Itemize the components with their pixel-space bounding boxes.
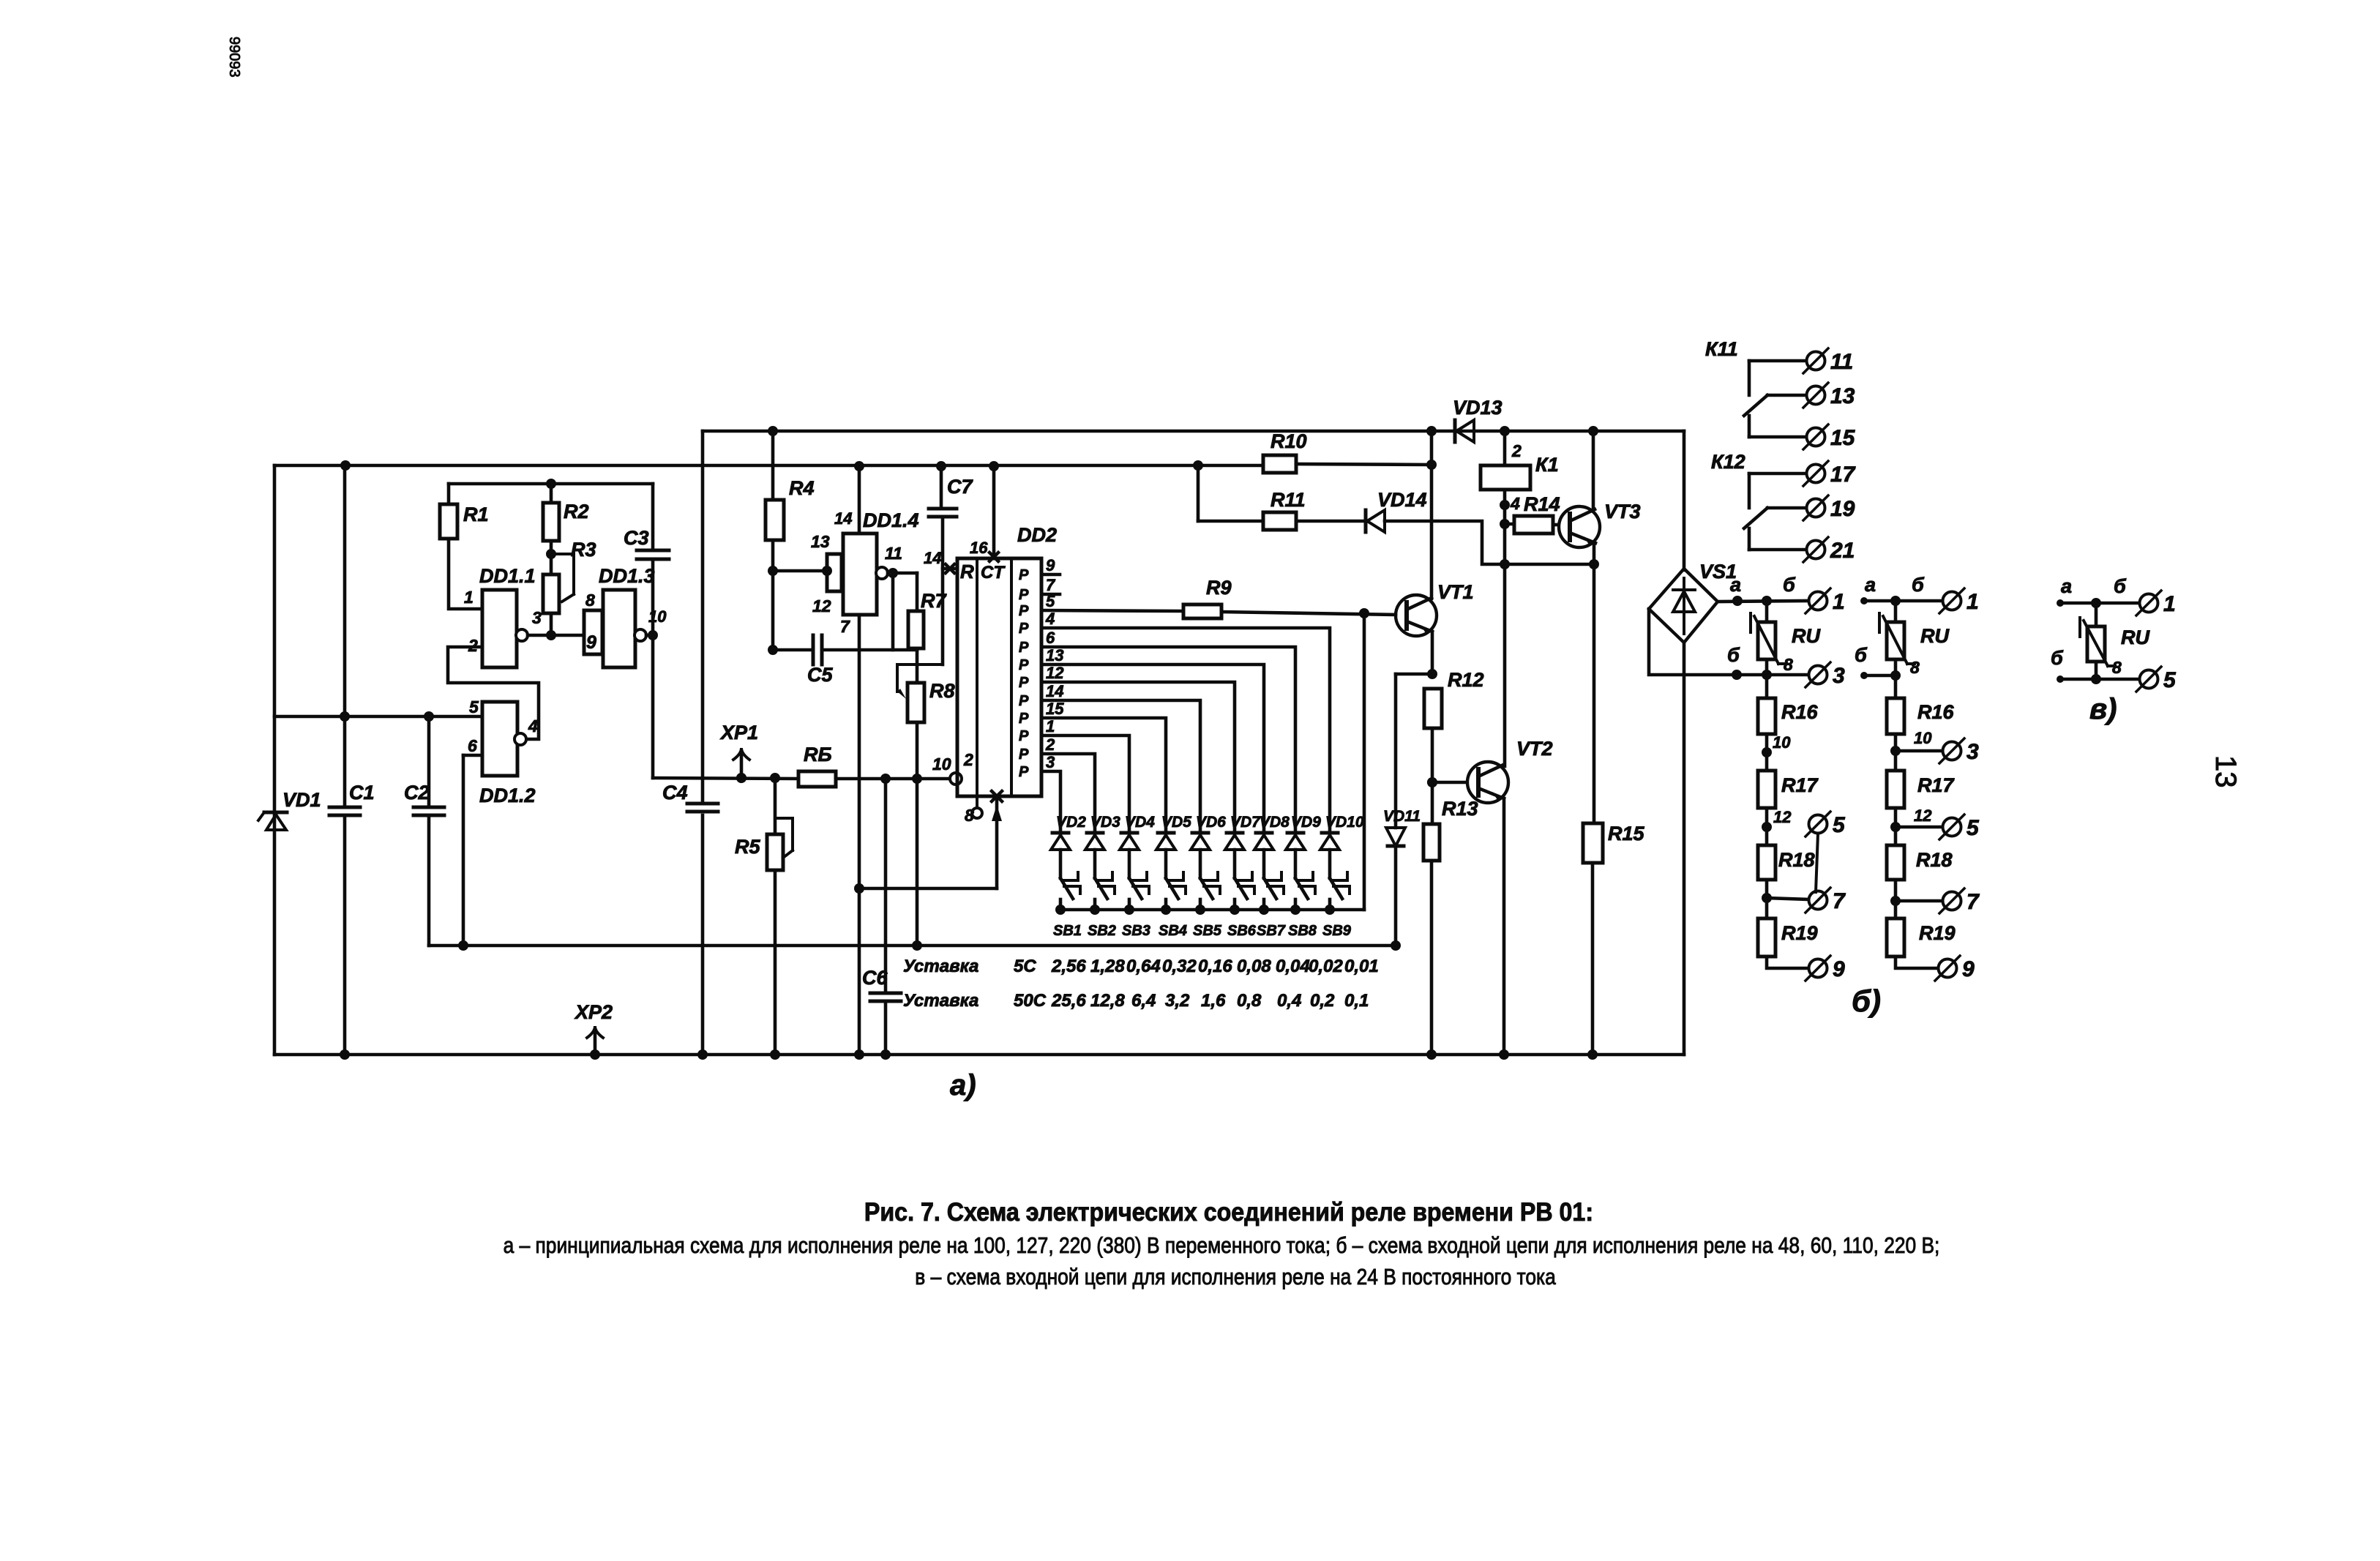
wire diode to button SB4: [1164, 850, 1168, 878]
switch SB8 push-button: [1288, 872, 1317, 939]
IC DD2 counter box: [957, 524, 1057, 796]
svg-text:R16: R16: [1917, 701, 1955, 723]
wire left edge with VD1: [273, 465, 277, 1055]
terminal 9 col a: [1805, 956, 1845, 981]
wire DD2 pin to diode column x=1543: [1041, 735, 1129, 831]
wire R16 node col b: [1890, 675, 1942, 771]
svg-text:0,32: 0,32: [1162, 957, 1197, 976]
svg-text:12: 12: [812, 596, 831, 615]
svg-text:а – принципиальная схема для и: а – принципиальная схема для исполнения …: [504, 1233, 1940, 1258]
wire input b col b: [1855, 644, 1901, 681]
DD2 pin10 bubble: [932, 750, 973, 785]
wire VT1 emitter: [1431, 632, 1434, 674]
caption title: [864, 1199, 1593, 1227]
capacitor C3: [624, 527, 669, 559]
wire R1 to DD1.1 pin1: [449, 539, 482, 609]
svg-text:1,28: 1,28: [1090, 957, 1125, 976]
svg-text:11: 11: [885, 544, 902, 563]
wire DD2 pin to diode column x=1770: [1041, 647, 1295, 831]
wire bottom rail of section a: [274, 1053, 1684, 1057]
wire VS1 output a: [1718, 574, 1808, 606]
svg-text:0,64: 0,64: [1126, 957, 1161, 976]
resistor R17 col a: [1758, 771, 1819, 808]
svg-text:9: 9: [1962, 957, 1975, 981]
wire R10 right lead: [1296, 460, 1437, 470]
svg-text:R13: R13: [1442, 798, 1478, 820]
svg-text:C7: C7: [947, 476, 973, 498]
switch SB9 push-button: [1322, 872, 1352, 939]
wire R18 node col b: [1890, 880, 1942, 918]
capacitor C7: [929, 476, 973, 517]
svg-text:VD4: VD4: [1125, 814, 1155, 831]
resistor R1: [440, 504, 489, 539]
wire DD1.4 pin13 net: [773, 566, 832, 576]
diode VD2: [1051, 814, 1086, 850]
svg-text:25,6: 25,6: [1051, 991, 1086, 1011]
logic gate DD1.1: [468, 565, 536, 667]
svg-text:0,8: 0,8: [1237, 991, 1262, 1011]
relay contact K1.1: [1705, 338, 1856, 450]
resistor R18 col a: [1758, 845, 1815, 880]
wire RU leads sec v: [2095, 603, 2098, 679]
svg-text:RБ: RБ: [804, 744, 832, 765]
svg-text:DD1.1: DD1.1: [479, 565, 536, 587]
wire RU leads col b: [1894, 601, 1898, 675]
svg-text:4: 4: [1045, 610, 1055, 628]
resistor R12: [1424, 669, 1484, 728]
DD2 pin7 stub: [1041, 593, 1060, 596]
svg-text:1,6: 1,6: [1201, 991, 1226, 1011]
svg-text:б: б: [2114, 575, 2127, 597]
resistor R5 trimmer: [735, 818, 793, 870]
svg-text:1: 1: [1833, 590, 1845, 614]
resistor R4: [766, 477, 815, 540]
wire DD2 pin to diode column x=1593: [1041, 718, 1166, 831]
diode VD1 zener: [258, 789, 321, 830]
svg-text:10: 10: [1773, 733, 1791, 752]
resistor R16 col a: [1758, 698, 1819, 734]
svg-text:13: 13: [2209, 755, 2242, 788]
svg-text:R17: R17: [1781, 774, 1819, 796]
svg-text:P: P: [1019, 711, 1029, 727]
terminal 3 of a: [1805, 662, 1845, 688]
diode VD5: [1156, 814, 1191, 850]
bridge rectifier VS1: [1649, 561, 1737, 643]
svg-text:DD2: DD2: [1017, 524, 1057, 546]
wire top rail junctions: [1426, 426, 1598, 436]
svg-text:0,4: 0,4: [1277, 991, 1301, 1011]
terminal 5 col b: [1939, 815, 1980, 840]
svg-text:0,1: 0,1: [1344, 991, 1369, 1011]
svg-text:К11: К11: [1705, 338, 1738, 360]
svg-text:R8: R8: [929, 680, 955, 702]
svg-text:R4: R4: [789, 477, 815, 499]
svg-text:6,4: 6,4: [1131, 991, 1156, 1011]
DD2 pin8 bubble: [965, 796, 982, 825]
wire C1 branch: [343, 465, 347, 1055]
wire R1 top lead: [447, 484, 451, 504]
svg-text:P: P: [1019, 567, 1029, 583]
varistor RU col b: [1879, 613, 1950, 677]
logic gate DD1.2: [468, 697, 538, 806]
switch SB5 push-button: [1193, 872, 1222, 939]
svg-text:VD3: VD3: [1090, 814, 1120, 831]
terminal 7 col b: [1939, 888, 1980, 914]
svg-text:C5: C5: [807, 664, 833, 686]
svg-text:R3: R3: [571, 539, 596, 561]
svg-text:1: 1: [464, 588, 474, 607]
svg-text:0,08: 0,08: [1237, 957, 1271, 976]
svg-text:19: 19: [1830, 497, 1855, 521]
switch SB6 push-button: [1227, 872, 1257, 939]
wire R17 node col b: [1890, 806, 1942, 845]
resistor R10: [1263, 430, 1307, 473]
wire K1 top lead: [1503, 431, 1507, 465]
svg-text:5С: 5С: [1014, 957, 1036, 976]
wire top rail of section a: [703, 430, 1684, 433]
wire DD1.4 pin14 lead: [854, 461, 864, 534]
wire C2 branch to setpoint line: [427, 716, 431, 946]
wire DD2 pin to diode column x=1687: [1041, 682, 1235, 831]
svg-text:P: P: [1019, 587, 1029, 603]
svg-text:P: P: [1019, 728, 1029, 744]
svg-text:P: P: [1019, 764, 1029, 780]
capacitor C6: [862, 967, 901, 1001]
gate DD1.3 output bubble: [635, 629, 646, 641]
wire SB common line: [1060, 908, 1364, 912]
svg-text:3: 3: [532, 608, 542, 627]
wire diode to button SB8: [1294, 850, 1298, 878]
svg-text:P: P: [1019, 657, 1029, 673]
wire C3 top lead: [651, 484, 655, 550]
svg-text:8: 8: [2112, 658, 2122, 677]
wire right edge to VS1: [1683, 431, 1686, 570]
svg-text:1: 1: [1046, 717, 1055, 735]
svg-text:Рис. 7. Схема электрических со: Рис. 7. Схема электрических соединений р…: [864, 1199, 1593, 1227]
svg-text:К12: К12: [1711, 451, 1745, 473]
svg-text:R9: R9: [1206, 577, 1232, 599]
svg-text:R19: R19: [1919, 922, 1956, 944]
varistor RU sec v: [2080, 618, 2150, 677]
svg-text:10: 10: [932, 755, 951, 774]
svg-text:DD1.2: DD1.2: [479, 785, 536, 806]
svg-text:15: 15: [1830, 426, 1856, 450]
gate DD1.2 output bubble: [514, 733, 526, 745]
svg-text:0,04: 0,04: [1276, 957, 1310, 976]
svg-text:VT1: VT1: [1437, 581, 1474, 603]
terminal 1 col b: [1939, 588, 1979, 614]
wire DD1.4 pin7 ground lead: [854, 615, 864, 1060]
svg-text:VD14: VD14: [1377, 489, 1427, 511]
wire R5 leads: [770, 773, 780, 1060]
svg-text:8: 8: [585, 591, 595, 610]
resistor R2: [543, 501, 589, 541]
svg-text:R: R: [960, 561, 974, 583]
svg-text:1: 1: [1967, 590, 1979, 614]
label b) figure: [1852, 984, 1881, 1018]
diode VD7: [1225, 814, 1261, 850]
svg-text:8: 8: [1910, 658, 1920, 677]
wire VD14 to VT3 emitter net: [1385, 521, 1599, 569]
resistor R19 col a: [1758, 918, 1818, 957]
svg-text:ХР2: ХР2: [574, 1001, 613, 1023]
wire R6 to DD2 pin10: [836, 774, 950, 784]
wire R1 R2 C3 top net: [449, 479, 653, 489]
diode VD10: [1320, 814, 1364, 850]
svg-text:R14: R14: [1524, 493, 1560, 515]
svg-text:15: 15: [1046, 700, 1064, 718]
terminal 1 of a: [1805, 588, 1845, 614]
svg-text:VD1: VD1: [282, 789, 321, 811]
svg-text:P: P: [1019, 640, 1029, 656]
svg-text:SB7: SB7: [1257, 923, 1286, 939]
wire central box left edge: [697, 431, 708, 1060]
svg-text:VT2: VT2: [1516, 738, 1553, 760]
svg-text:R10: R10: [1271, 430, 1307, 452]
svg-text:R15: R15: [1608, 823, 1645, 845]
svg-text:SB8: SB8: [1288, 923, 1317, 939]
wire diode to button SB9: [1328, 850, 1332, 878]
svg-text:R12: R12: [1448, 669, 1484, 691]
wire DD1.4 pin11 net: [885, 544, 917, 650]
svg-text:3: 3: [1967, 740, 1979, 764]
svg-text:5: 5: [469, 697, 479, 716]
wire DD1.1 pin2 to DD1.2 pin4: [448, 647, 539, 739]
svg-text:C3: C3: [624, 527, 649, 549]
wire input a col b: [1860, 574, 1942, 606]
svg-text:RU: RU: [1792, 625, 1821, 647]
svg-text:0,2: 0,2: [1310, 991, 1335, 1011]
svg-text:CT: CT: [981, 563, 1006, 583]
wire input b sec v: [2051, 647, 2139, 684]
svg-text:C1: C1: [349, 782, 375, 804]
svg-text:P: P: [1019, 746, 1029, 763]
wire C6 branch: [880, 779, 891, 1060]
wire VT1 base drop to SB common: [1363, 613, 1366, 910]
wire DD1.2 pin6 to setpoint line: [458, 755, 482, 951]
svg-text:5: 5: [1967, 816, 1980, 840]
svg-text:12,8: 12,8: [1090, 991, 1125, 1011]
wire R15 bottom lead: [1587, 863, 1598, 1060]
terminal 1 sec v: [2136, 591, 2176, 616]
wire DD2 pin3 to VD2: [1041, 771, 1060, 831]
resistor R9: [1183, 577, 1232, 618]
switch SB2 push-button: [1088, 872, 1116, 939]
svg-text:VD5: VD5: [1161, 814, 1191, 831]
diode VD13: [1453, 397, 1503, 442]
wire R10 R11 left link: [1193, 460, 1203, 521]
svg-text:4: 4: [528, 716, 538, 735]
svg-text:а): а): [950, 1069, 976, 1101]
svg-text:P: P: [1019, 621, 1029, 637]
wire VD11 branch: [1391, 674, 1401, 951]
setpoint table row 50C: [903, 991, 1369, 1011]
logic gate DD1.4: [811, 509, 919, 636]
svg-text:VD11: VD11: [1383, 808, 1421, 825]
svg-text:SB2: SB2: [1088, 923, 1116, 939]
svg-text:в – схема входной цепи для исп: в – схема входной цепи для исполнения ре…: [915, 1265, 1555, 1289]
resistor R8 trimmer: [897, 665, 955, 722]
wire diode to button SB6: [1233, 850, 1237, 878]
wire diode to button SB7: [1262, 850, 1266, 878]
switch SB4 push-button: [1159, 872, 1187, 939]
resistor R11: [1263, 489, 1306, 530]
svg-text:К1: К1: [1535, 454, 1559, 476]
setpoint table row 5C: [903, 957, 1379, 976]
svg-text:3,2: 3,2: [1165, 991, 1190, 1011]
terminal 3 col b: [1939, 738, 1979, 764]
resistor R17 col b: [1887, 771, 1956, 808]
switch SB7 push-button: [1257, 872, 1286, 939]
svg-text:SB9: SB9: [1322, 923, 1352, 939]
svg-text:21: 21: [1830, 539, 1855, 563]
svg-text:R18: R18: [1916, 849, 1953, 871]
resistor R3 trimmer: [543, 539, 596, 613]
connector XP2 arrow: [574, 1001, 613, 1060]
svg-text:R5: R5: [735, 836, 760, 858]
svg-text:2: 2: [963, 750, 973, 769]
transistor VT3: [1559, 501, 1641, 547]
transistor VT2: [1467, 738, 1553, 803]
DD2 pin9 stub: [1041, 573, 1060, 577]
svg-text:17: 17: [1830, 463, 1856, 487]
wire C7 top lead: [936, 461, 946, 509]
relay coil K1: [1481, 441, 1559, 490]
svg-text:Уставка: Уставка: [903, 991, 978, 1011]
transistor VT1: [1396, 581, 1474, 636]
wire VT2 emitter: [1499, 798, 1509, 1060]
svg-text:SB1: SB1: [1053, 923, 1082, 939]
svg-text:0,02: 0,02: [1309, 957, 1343, 976]
svg-text:б: б: [1783, 574, 1796, 596]
svg-text:8: 8: [1784, 655, 1793, 674]
wire diode to button SB2: [1093, 850, 1097, 878]
svg-text:VD2: VD2: [1056, 814, 1086, 831]
svg-text:P: P: [1019, 603, 1029, 619]
diode VD8: [1254, 814, 1290, 850]
svg-text:R19: R19: [1781, 922, 1818, 944]
svg-text:C2: C2: [404, 782, 430, 804]
switch SB3 push-button: [1122, 872, 1150, 939]
gate DD1.1 output bubble: [516, 629, 528, 641]
svg-text:9: 9: [1046, 556, 1055, 574]
svg-text:а: а: [1865, 574, 1876, 596]
wire VT3 emitter to R15: [1593, 543, 1596, 823]
wire R2 R3 junction: [546, 541, 556, 574]
wire pin3 net: [528, 608, 584, 635]
wire R12 to R13: [1427, 728, 1437, 824]
wire R11 to VD14: [1198, 520, 1366, 523]
svg-text:R1: R1: [463, 504, 489, 525]
svg-text:Уставка: Уставка: [903, 957, 978, 976]
diode VD3: [1085, 814, 1120, 850]
diode VD11: [1383, 808, 1421, 846]
svg-text:14: 14: [834, 509, 852, 528]
wire R8 bottom: [912, 722, 922, 951]
svg-text:R18: R18: [1778, 849, 1815, 871]
wire R3 to pin3 net: [546, 613, 556, 640]
svg-text:б: б: [2051, 647, 2064, 669]
svg-text:C4: C4: [662, 782, 688, 804]
svg-text:0,01: 0,01: [1344, 957, 1379, 976]
svg-text:VD8: VD8: [1260, 814, 1290, 831]
svg-text:12: 12: [1914, 806, 1932, 825]
svg-text:2: 2: [1511, 441, 1522, 460]
svg-text:5: 5: [1833, 813, 1846, 837]
label v) figure: [2089, 693, 2117, 725]
svg-text:14: 14: [1046, 682, 1063, 700]
svg-text:2,56: 2,56: [1051, 957, 1086, 976]
wire R9 to VT1 base: [1221, 608, 1396, 618]
capacitor C1: [329, 711, 375, 1060]
svg-text:SB5: SB5: [1193, 923, 1222, 939]
svg-text:99093: 99093: [226, 37, 242, 78]
svg-text:1: 1: [2163, 592, 2176, 616]
wire R16 leads col a: [1762, 675, 1791, 771]
DD2 output pin labels: [1045, 556, 1064, 771]
svg-text:DD1.3: DD1.3: [599, 565, 655, 587]
wire C7 to DD2 pin14: [924, 517, 957, 665]
wire R4 branch: [768, 426, 778, 655]
svg-text:9: 9: [1833, 957, 1845, 981]
wire R7 R8 junction: [916, 648, 919, 683]
svg-text:5: 5: [2163, 668, 2177, 692]
diode VD9: [1286, 814, 1321, 850]
switch SB1 push-button: [1053, 872, 1082, 939]
svg-text:б: б: [1727, 644, 1740, 666]
DD2 ground pin with arrow: [859, 791, 1002, 888]
svg-text:P: P: [1019, 693, 1029, 709]
caption line v: [915, 1265, 1555, 1289]
wire C5 net: [773, 648, 917, 652]
svg-text:3: 3: [1046, 753, 1055, 771]
svg-text:4: 4: [1510, 494, 1520, 513]
capacitor C5: [807, 635, 833, 686]
svg-text:7: 7: [1833, 889, 1846, 913]
svg-text:а: а: [2061, 575, 2072, 597]
svg-text:6: 6: [1046, 629, 1055, 647]
svg-text:SB6: SB6: [1227, 923, 1257, 939]
svg-text:VD9: VD9: [1291, 814, 1321, 831]
logic gate DD1.3: [584, 565, 655, 667]
terminal 9 col b: [1935, 956, 1975, 981]
svg-text:11: 11: [1830, 350, 1853, 374]
svg-text:13: 13: [811, 532, 830, 551]
wire DD2 pin to diode column x=1727: [1041, 665, 1264, 831]
connector XP1 arrow: [719, 722, 758, 783]
svg-text:б: б: [1855, 644, 1868, 666]
wire VT3 collector: [1592, 431, 1595, 510]
wire R14 leads: [1505, 524, 1558, 525]
wire VS1 output b L-path: [1649, 609, 1808, 680]
wire DD1.2 pin5 net: [274, 715, 482, 719]
resistor R16 col b: [1887, 698, 1955, 734]
wire input a sec v: [2057, 575, 2139, 608]
terminal 5 col a: [1805, 812, 1846, 892]
svg-text:16: 16: [970, 539, 988, 557]
svg-text:13: 13: [1830, 384, 1855, 408]
svg-text:50С: 50С: [1014, 991, 1047, 1011]
wire R17 R18 node col a: [1762, 808, 1792, 845]
svg-text:R11: R11: [1271, 489, 1306, 511]
resistor R13: [1423, 798, 1478, 861]
svg-text:7: 7: [1967, 890, 1980, 914]
diode VD6: [1191, 814, 1226, 850]
svg-text:ХР1: ХР1: [719, 722, 758, 744]
svg-text:R16: R16: [1781, 701, 1819, 723]
svg-text:2: 2: [1045, 735, 1055, 754]
relay contact K1.2: [1711, 451, 1856, 563]
